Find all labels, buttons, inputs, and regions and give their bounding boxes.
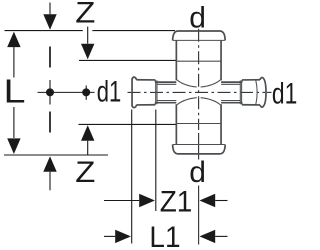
dimension Z1 right arrow <box>200 194 228 207</box>
vertical axis extension to dimension rows <box>198 133 200 245</box>
fitting: top socket shoulder line <box>176 60 221 62</box>
fitting: right shoulder step <box>241 80 243 105</box>
dimension L1 left arrow <box>104 230 131 243</box>
Z chain outer arrow top (x=50, points down to line A) <box>43 3 56 30</box>
vertical axis centerline of pipe d <box>198 29 200 130</box>
extension line E (bottom socket shoulder plane) <box>79 123 177 125</box>
fitting: right socket shoulder lines <box>240 80 241 104</box>
fitting: left socket face <box>131 78 133 106</box>
fitting: bottom socket shoulder line <box>176 123 221 125</box>
svg-text:d: d <box>189 1 206 34</box>
dimension Z1 left arrow <box>104 194 155 207</box>
svg-text:d1: d1 <box>272 78 297 111</box>
Z chain outer arrow bottom (x=50, points up to line C) <box>43 156 56 190</box>
fitting: left socket bead flare sides <box>132 77 136 108</box>
fitting: left socket outer walls <box>136 80 155 105</box>
dimension L arrow up <box>7 32 20 154</box>
fitting: left shoulder step <box>154 80 156 105</box>
fitting: vertical pipe walls lower <box>176 104 221 144</box>
fitting: vertical pipe walls upper <box>176 40 221 80</box>
fitting: right socket bead mouth <box>260 77 266 107</box>
fitting: bottom bead flare line <box>173 144 225 146</box>
svg-text:L1: L1 <box>149 221 180 250</box>
horizontal axis centerline left segments <box>38 91 95 93</box>
extension line left socket shoulder (x=155.8) <box>155 110 157 212</box>
svg-text:Z: Z <box>75 0 95 29</box>
svg-text:d1: d1 <box>97 75 122 108</box>
extension line B (top socket shoulder plane) <box>79 59 176 61</box>
Z chain dash-dot segment upper <box>49 47 51 68</box>
axis node dot 1 with crosshair <box>46 80 54 105</box>
fitting: right socket flare arc line <box>256 80 257 104</box>
fitting: right branch tube walls <box>221 82 242 103</box>
fitting: intersection arc bottom-right <box>201 98 221 105</box>
fitting: top socket bead hat <box>173 31 226 40</box>
fitting: right branch inner lines <box>221 84 240 100</box>
svg-text:d: d <box>189 156 206 189</box>
horizontal axis centerline through fitting <box>128 91 266 93</box>
extension line left face of branch (x=131.7) <box>131 110 133 244</box>
fitting: left branch tube walls <box>155 82 176 103</box>
fitting: right socket outer walls <box>242 80 260 105</box>
horizontal axis stub right of fitting <box>267 91 272 93</box>
fitting: bottom socket bead hat <box>173 145 226 154</box>
fitting: intersection arc bottom-left <box>177 98 197 105</box>
dimension Z top inner arrow (x=87.7, points down to line B) <box>81 27 94 60</box>
extension line A (top face plane) <box>5 30 176 32</box>
Z chain dash-dot segment lower <box>49 112 51 133</box>
svg-text:Z1: Z1 <box>160 186 193 219</box>
extension line C (bottom face plane) <box>4 154 108 156</box>
dimension Z bottom inner arrow (x=87.7, points up to line E) <box>81 125 94 154</box>
fitting: intersection arc top-left <box>177 80 197 87</box>
axis node dot 2 with crosshair <box>82 86 90 100</box>
svg-text:Z: Z <box>75 156 95 189</box>
fitting: intersection arc top-right <box>201 80 221 87</box>
fitting: top bead flare line <box>173 39 225 41</box>
svg-text:L: L <box>4 72 26 109</box>
dimension L1 right arrow <box>200 230 228 243</box>
fitting: left branch inner lines <box>157 84 176 100</box>
fitting: left socket shoulder lines <box>156 80 157 104</box>
